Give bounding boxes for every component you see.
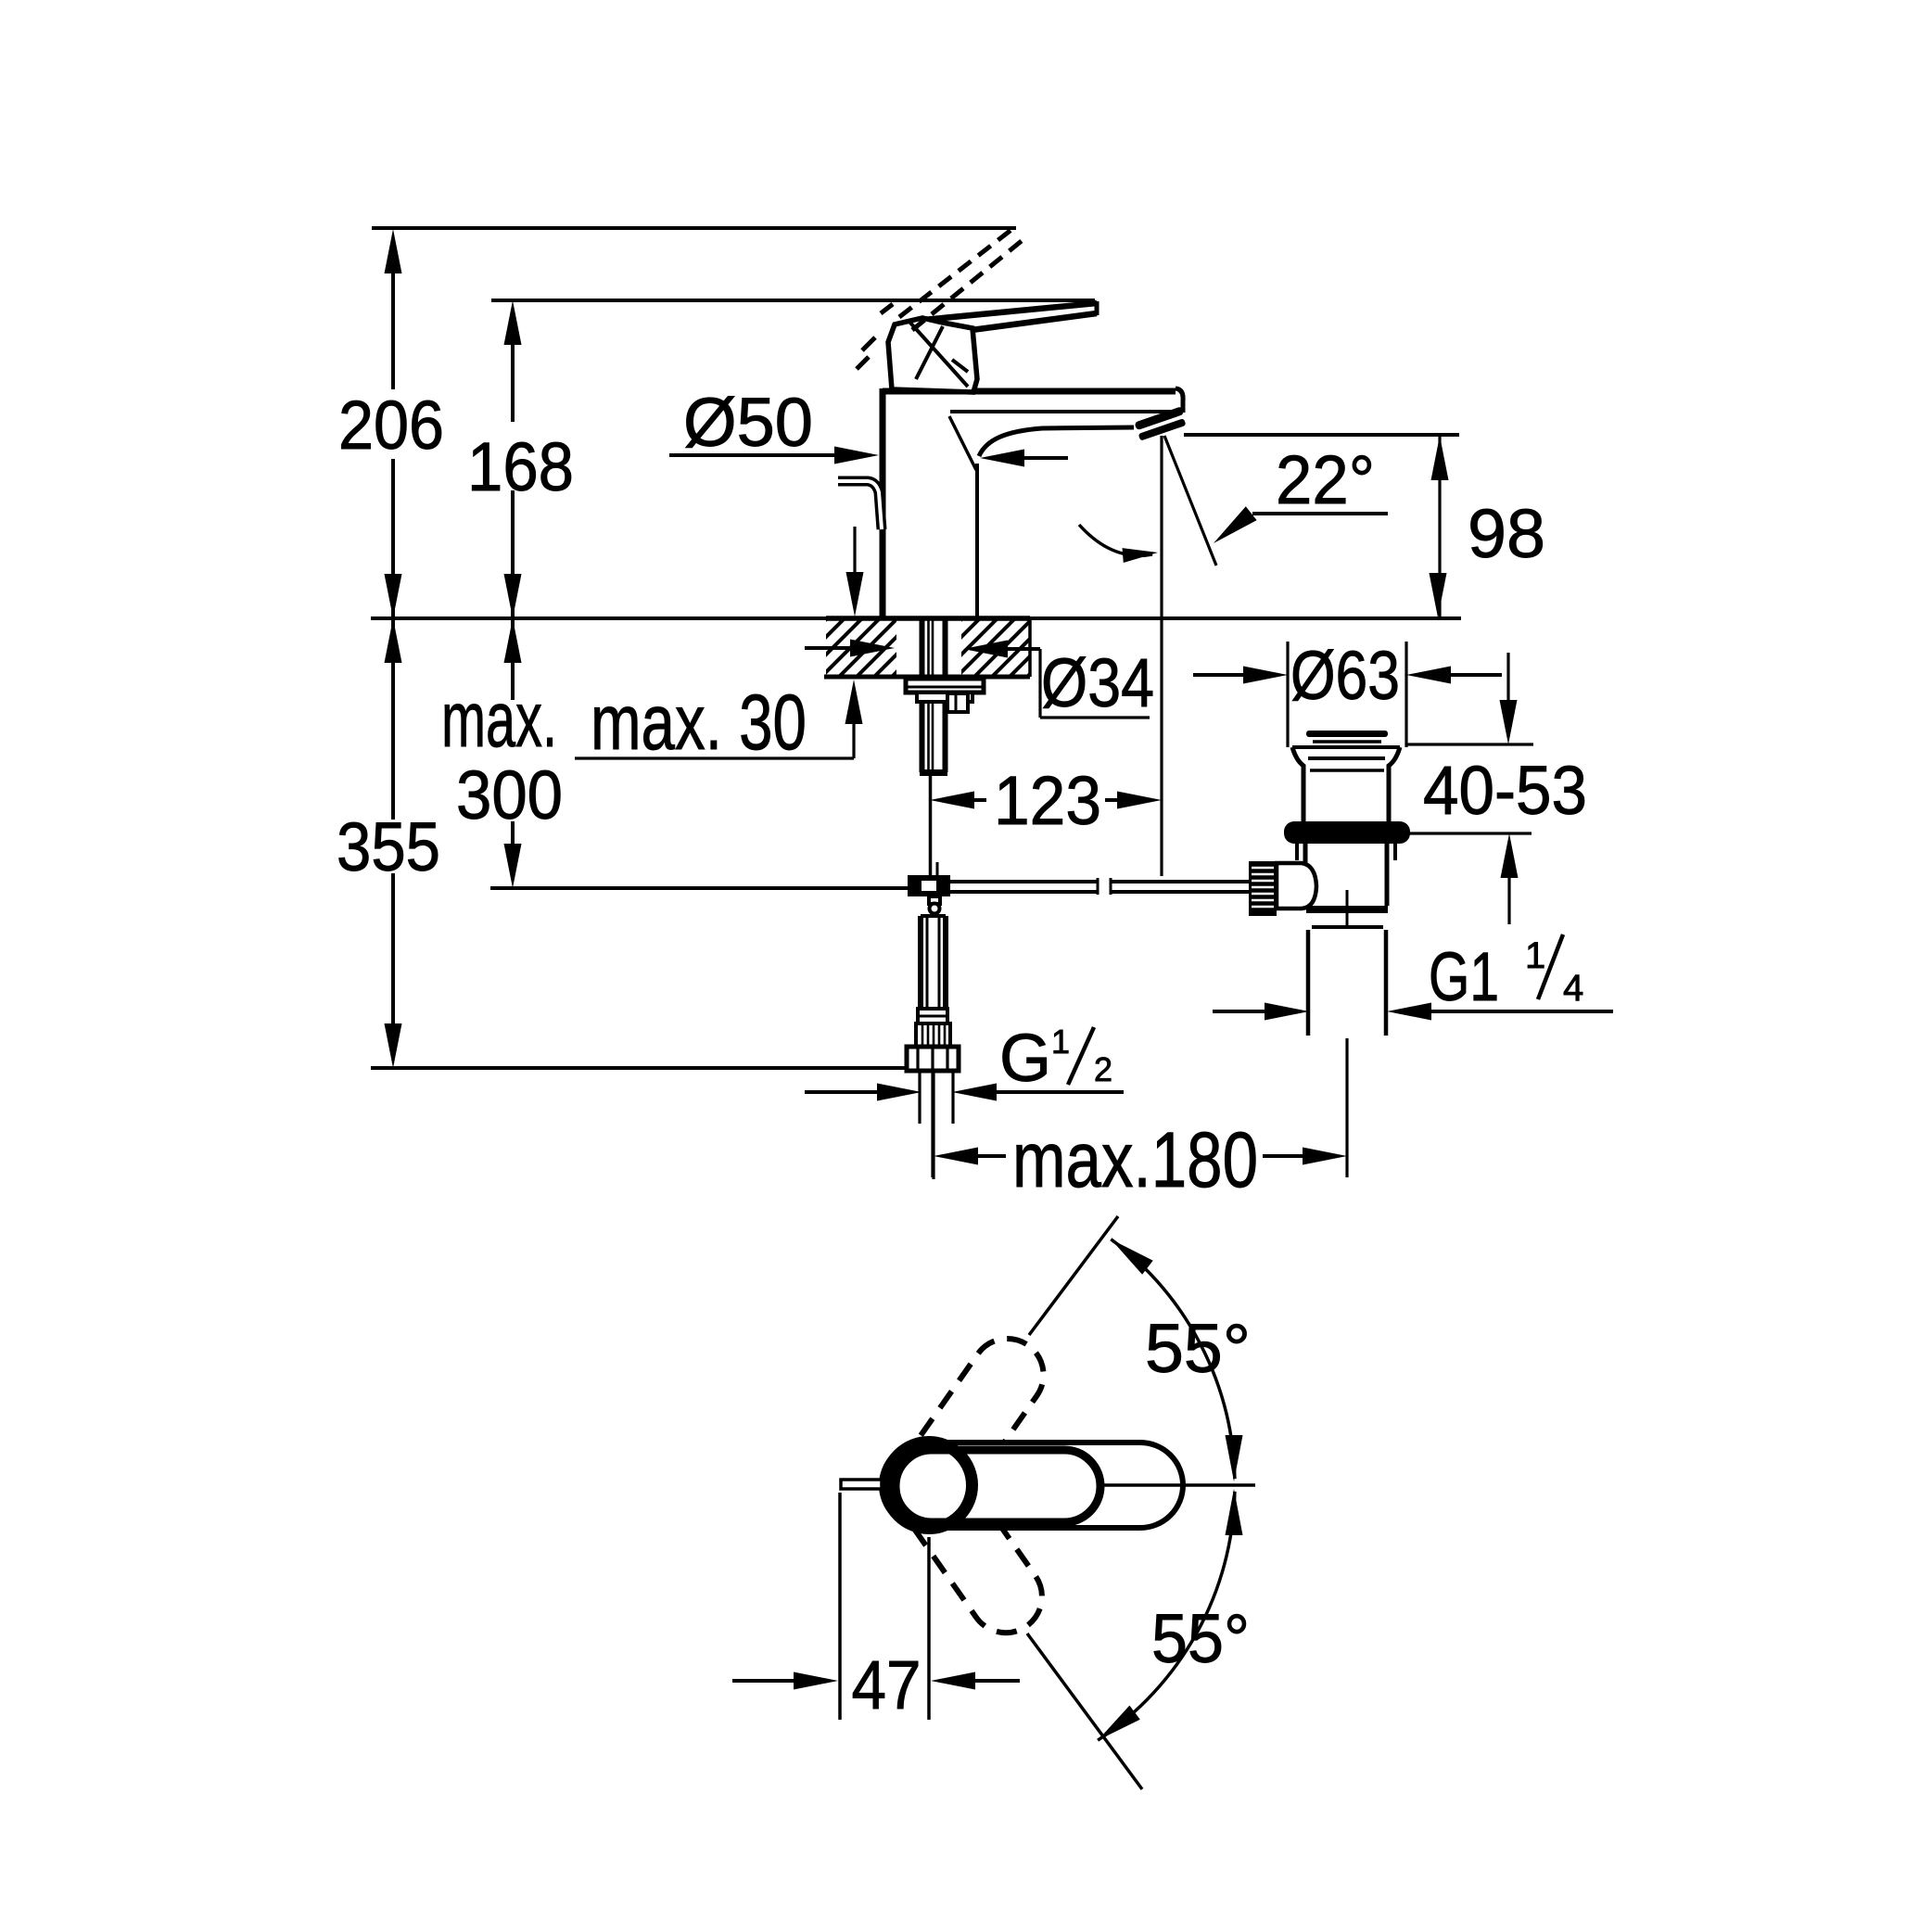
svg-text:1: 1 — [1051, 1023, 1070, 1061]
svg-text:G: G — [999, 1022, 1051, 1096]
svg-text:300: 300 — [456, 756, 563, 833]
svg-text:Ø50: Ø50 — [683, 384, 813, 461]
svg-text:4: 4 — [1563, 968, 1583, 1009]
svg-text:168: 168 — [467, 428, 574, 505]
svg-text:Ø63: Ø63 — [1290, 637, 1400, 714]
svg-text:55°: 55° — [1145, 1310, 1251, 1387]
svg-text:123: 123 — [994, 762, 1101, 839]
svg-text:2: 2 — [1094, 1050, 1112, 1088]
svg-text:1: 1 — [1525, 935, 1545, 976]
svg-text:max.180: max.180 — [1012, 1116, 1258, 1203]
svg-text:355: 355 — [337, 808, 440, 885]
svg-text:206: 206 — [338, 387, 444, 464]
svg-text:22°: 22° — [1276, 441, 1375, 518]
svg-text:40-53: 40-53 — [1423, 752, 1587, 829]
svg-text:G1: G1 — [1429, 938, 1499, 1015]
svg-text:max. 30: max. 30 — [591, 679, 807, 766]
svg-text:47: 47 — [852, 1646, 922, 1723]
svg-text:max.: max. — [441, 676, 557, 763]
svg-text:Ø34: Ø34 — [1041, 644, 1154, 721]
svg-text:98: 98 — [1468, 495, 1545, 572]
svg-text:55°: 55° — [1151, 1600, 1250, 1677]
